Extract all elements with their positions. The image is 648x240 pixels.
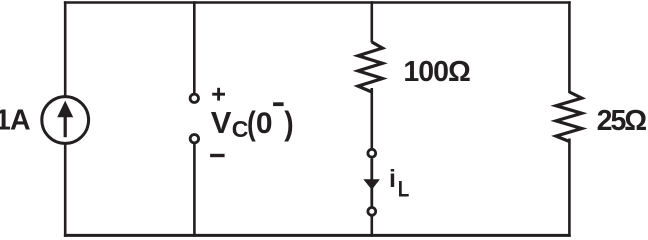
wire capacitor branch upper segment: [193, 1, 196, 93]
label - (minus sign): [210, 154, 225, 157]
wire bottom rail: [64, 234, 571, 237]
wire capacitor branch lower segment: [193, 144, 196, 237]
wire right branch lower segment: [568, 139, 571, 237]
svg-text:): ): [284, 104, 293, 142]
wire inductor branch lower segment: [370, 217, 373, 237]
current source arrow: [57, 101, 73, 138]
label VC(0-): [211, 102, 294, 142]
svg-text:L: L: [398, 177, 410, 202]
wire left branch lower segment: [64, 144, 67, 237]
arrow iL (current direction): [363, 179, 380, 190]
wire node to arrow iL: [370, 158, 373, 181]
resistor R1 100 ohm zigzag: [358, 42, 383, 92]
wire right branch upper segment: [568, 1, 571, 93]
node top of inductor gap: [368, 149, 376, 157]
svg-text:V: V: [211, 105, 232, 140]
terminal node bottom (-): [190, 135, 198, 143]
resistor R2 25 ohm zigzag: [556, 92, 582, 142]
label + (plus sign): [212, 88, 225, 101]
svg-text:1A: 1A: [0, 105, 30, 137]
current source I1 circle: [42, 97, 89, 144]
wire top rail: [64, 1, 571, 4]
svg-text:i: i: [389, 165, 396, 193]
svg-text:25Ω: 25Ω: [597, 105, 647, 137]
wire left branch upper segment: [64, 1, 67, 96]
terminal node top (+): [190, 94, 198, 102]
svg-text:0: 0: [256, 107, 273, 140]
wire inductor branch upper segment: [370, 1, 373, 42]
label iL: [389, 165, 410, 202]
svg-text:100Ω: 100Ω: [403, 56, 470, 88]
wire arrow to bottom node: [370, 187, 373, 207]
svg-text:C: C: [232, 116, 249, 142]
wire resistor to node: [370, 88, 373, 149]
node bottom of inductor gap: [368, 208, 376, 216]
